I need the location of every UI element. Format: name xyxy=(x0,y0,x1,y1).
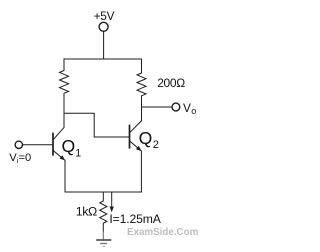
wire current arrow shaft xyxy=(111,193,113,208)
svg-text:I=1.25mA: I=1.25mA xyxy=(109,212,161,226)
node Vi input terminal xyxy=(15,141,22,148)
wire Vo tap xyxy=(142,106,172,108)
node Vo terminal xyxy=(172,103,180,111)
transistor Q2 collector xyxy=(130,121,142,133)
transistor Q2 emitter xyxy=(130,141,141,192)
wire top rail xyxy=(64,58,142,60)
arrow Q2 emitter arrowhead xyxy=(136,146,142,151)
resistor RC1 left collector resistor xyxy=(60,59,69,127)
svg-text:ExamSide.Com: ExamSide.Com xyxy=(127,227,199,238)
svg-text:Vi=0: Vi=0 xyxy=(9,152,31,165)
arrow Q1 emitter arrowhead xyxy=(60,155,66,160)
svg-text:200Ω: 200Ω xyxy=(157,76,185,90)
resistor RC2 200 ohm xyxy=(137,59,146,121)
transistor Q1 collector xyxy=(54,127,65,139)
wire bottom emitter rail xyxy=(65,191,141,193)
svg-text:Q1: Q1 xyxy=(62,136,82,159)
svg-text:1kΩ: 1kΩ xyxy=(76,205,97,219)
resistor RE 1k ohm xyxy=(100,192,107,231)
wire Vi to Q1 base xyxy=(23,144,53,146)
arrow current direction head xyxy=(110,207,114,213)
transistor Q2 base bar xyxy=(129,126,131,148)
transistor Q1 emitter xyxy=(54,151,66,192)
svg-text:Q2: Q2 xyxy=(139,128,159,151)
node +5V supply terminal xyxy=(99,22,108,31)
ground xyxy=(96,231,111,246)
wire supply to top rail xyxy=(103,31,105,59)
wire Q1 collector to Q2 base jog xyxy=(64,113,129,137)
transistor Q1 base bar xyxy=(52,134,54,155)
svg-text:Vo: Vo xyxy=(183,101,196,116)
svg-text:+5V: +5V xyxy=(94,9,115,23)
